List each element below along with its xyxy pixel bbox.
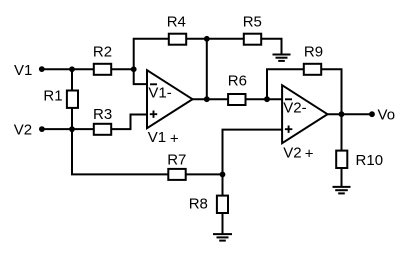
svg-text:+: +	[170, 130, 179, 147]
svg-text:+: +	[305, 146, 314, 163]
svg-text:R5: R5	[243, 13, 262, 30]
svg-text:R9: R9	[304, 43, 323, 60]
svg-text:R6: R6	[228, 72, 247, 89]
svg-text:V2: V2	[14, 121, 32, 138]
svg-text:R4: R4	[167, 13, 186, 30]
svg-text:R8: R8	[189, 196, 208, 213]
svg-text:V1-: V1-	[148, 84, 171, 101]
svg-text:R1: R1	[43, 88, 62, 105]
svg-text:R7: R7	[167, 152, 186, 169]
svg-text:V2-: V2-	[283, 99, 306, 116]
svg-text:V1: V1	[14, 62, 32, 79]
svg-text:R10: R10	[356, 152, 384, 169]
svg-text:Vo: Vo	[378, 107, 396, 124]
svg-text:R3: R3	[93, 106, 112, 123]
svg-text:V2: V2	[283, 144, 301, 161]
svg-text:V1: V1	[148, 129, 166, 146]
svg-text:R2: R2	[93, 43, 112, 60]
